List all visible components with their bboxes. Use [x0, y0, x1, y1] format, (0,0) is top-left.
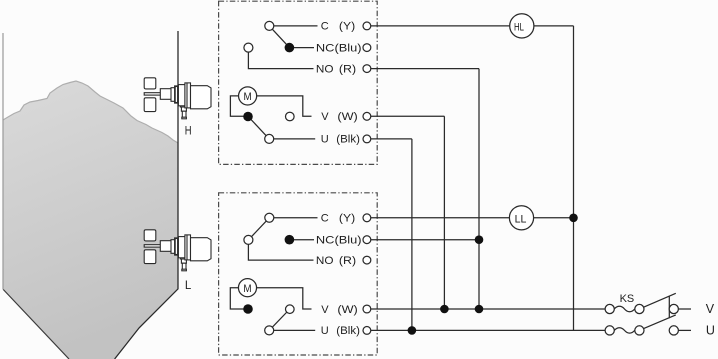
- svg-text:V: V: [706, 302, 715, 316]
- svg-text:(Y): (Y): [339, 213, 355, 225]
- svg-text:LL: LL: [515, 214, 527, 226]
- svg-text:V: V: [321, 111, 329, 123]
- svg-text:(W): (W): [337, 111, 357, 123]
- svg-text:NC(Blu): NC(Blu): [316, 42, 362, 54]
- svg-text:(Blk): (Blk): [336, 325, 360, 337]
- svg-text:V: V: [321, 304, 329, 316]
- svg-text:U: U: [706, 324, 715, 338]
- svg-text:(Y): (Y): [339, 21, 355, 33]
- svg-text:(W): (W): [337, 304, 357, 316]
- svg-text:NO: NO: [316, 63, 334, 75]
- svg-text:NC(Blu): NC(Blu): [316, 235, 362, 247]
- svg-text:U: U: [321, 325, 329, 337]
- svg-text:C: C: [321, 21, 329, 33]
- svg-text:C: C: [321, 213, 329, 225]
- svg-text:H: H: [185, 125, 192, 137]
- svg-text:HL: HL: [514, 22, 524, 34]
- svg-text:(R): (R): [339, 63, 356, 75]
- svg-text:(R): (R): [339, 255, 356, 267]
- svg-text:M: M: [243, 283, 251, 295]
- svg-text:U: U: [321, 134, 329, 146]
- svg-text:M: M: [244, 91, 252, 103]
- svg-text:KS: KS: [620, 293, 635, 305]
- svg-text:L: L: [185, 280, 192, 292]
- svg-text:NO: NO: [316, 255, 334, 267]
- svg-text:(Blk): (Blk): [336, 134, 360, 146]
